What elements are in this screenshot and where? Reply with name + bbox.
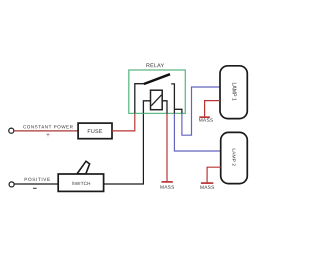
wire lamp 2 to mass [207, 167, 221, 183]
relay coil [151, 90, 163, 110]
svg-text:+: + [46, 132, 50, 139]
svg-text:CONSTANT POWER: CONSTANT POWER [23, 124, 74, 129]
svg-text:MASS: MASS [160, 185, 175, 191]
wire relay pin 87a to lamp 1 [182, 87, 220, 135]
terminal J2 (positive input) [9, 182, 14, 187]
wire switch to relay pin 86 [104, 113, 144, 184]
svg-text:RELAY: RELAY [146, 63, 164, 69]
relay pin 87 lead [171, 84, 174, 114]
wire fuse to relay pin 30 [112, 113, 135, 130]
wire constant power to fuse [14, 130, 78, 132]
svg-text:LAMP 2: LAMP 2 [231, 148, 237, 166]
fuse F1 [78, 123, 112, 139]
switch S1 lever [77, 161, 90, 174]
svg-text:FUSE: FUSE [87, 129, 102, 135]
ground mass 2 (lamp 1) [199, 117, 214, 124]
wire positive to switch [14, 183, 58, 185]
svg-text:SWITCH: SWITCH [72, 181, 91, 186]
relay K1 enclosure [129, 70, 186, 113]
switch S1 [58, 174, 103, 191]
svg-text:MASS: MASS [199, 118, 214, 124]
svg-text:MASS: MASS [200, 185, 215, 191]
wire relay pin 85 to mass [166, 113, 168, 181]
lamp LAMP2 [221, 132, 248, 183]
ground mass 3 (lamp 2) [200, 183, 215, 191]
terminal J1 (constant power input) [9, 128, 14, 133]
relay armature contact [144, 74, 170, 84]
relay coil left bracket pin 86 [143, 101, 150, 114]
svg-text:LAMP 1: LAMP 1 [231, 83, 237, 101]
relay coil right bracket pin 85 [162, 101, 167, 114]
label - (minus) [33, 187, 37, 189]
wire relay pin 87 to lamp 2 [174, 113, 220, 151]
lamp LAMP1 [220, 66, 247, 119]
ground mass 1 (relay coil) [160, 182, 175, 191]
wire lamp 1 to mass [205, 101, 220, 117]
relay pin 30 lead [135, 84, 144, 114]
relay pin 87a stub [174, 109, 182, 113]
svg-text:POSITIVE: POSITIVE [24, 177, 50, 182]
